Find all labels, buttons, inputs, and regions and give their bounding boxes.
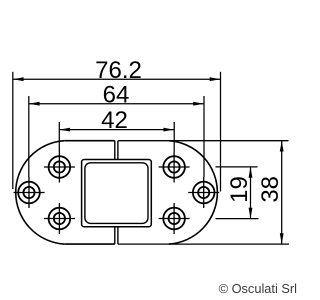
arrow 76.2 right xyxy=(210,77,221,81)
hinge body outline: bottom edge left leaf xyxy=(64,243,115,245)
svg-text:76.2: 76.2 xyxy=(95,57,142,84)
screw hole bottom-left xyxy=(44,203,75,234)
hinge body outline: left arc xyxy=(16,141,65,244)
screw hole top-left xyxy=(44,152,75,183)
dim 19 bottom extension line xyxy=(216,218,259,220)
arrow 76.2 left xyxy=(13,77,24,81)
hinge body outline: bottom edge right leaf + 38 bottom extension line xyxy=(118,243,289,245)
arrow 42 right xyxy=(163,128,174,132)
hinge body outline: top edge right leaf + 38 top extension line xyxy=(118,140,289,142)
dim 38 line xyxy=(281,141,283,244)
arrow 38 top xyxy=(280,141,284,152)
arrow 38 bottom xyxy=(280,233,284,244)
dim 64 line xyxy=(29,103,204,105)
svg-text:19: 19 xyxy=(226,176,253,203)
arrow 19 top xyxy=(249,167,253,178)
knuckle square outer xyxy=(82,160,152,227)
arrow 64 left xyxy=(29,102,40,106)
svg-text:© Osculati Srl: © Osculati Srl xyxy=(219,281,297,296)
leaf gap line right, below knuckle xyxy=(117,227,119,244)
arrow 42 left xyxy=(59,128,70,132)
dim 76.2 line xyxy=(13,78,221,80)
screw hole middle-right xyxy=(188,177,219,208)
leaf gap line left, below knuckle xyxy=(114,227,116,244)
leaf gap line left, above knuckle xyxy=(114,141,116,160)
dim 42 right extension line xyxy=(173,122,175,152)
knuckle square inner xyxy=(85,163,148,224)
dim 64 right extension line xyxy=(203,96,205,177)
dim 76.2 right extension line xyxy=(220,72,222,192)
leaf gap line right, above knuckle xyxy=(117,141,119,160)
dim 42 line xyxy=(59,129,174,131)
dim 42 left extension line xyxy=(58,122,60,152)
svg-text:42: 42 xyxy=(101,107,128,134)
hinge body outline: right arc xyxy=(169,141,218,244)
screw hole bottom-right xyxy=(159,203,190,234)
svg-text:38: 38 xyxy=(257,176,284,203)
dim 19 line xyxy=(250,167,252,219)
dim 19 top extension line xyxy=(216,166,258,168)
dim 76.2 left extension line xyxy=(12,72,14,189)
dim 64 left extension line xyxy=(28,96,30,177)
svg-text:64: 64 xyxy=(103,82,130,109)
screw hole top-right xyxy=(159,152,190,183)
arrow 64 right xyxy=(193,102,204,106)
screw hole middle-left xyxy=(14,177,45,208)
hinge body outline: top edge left leaf xyxy=(64,140,115,142)
arrow 19 bottom xyxy=(249,208,253,219)
